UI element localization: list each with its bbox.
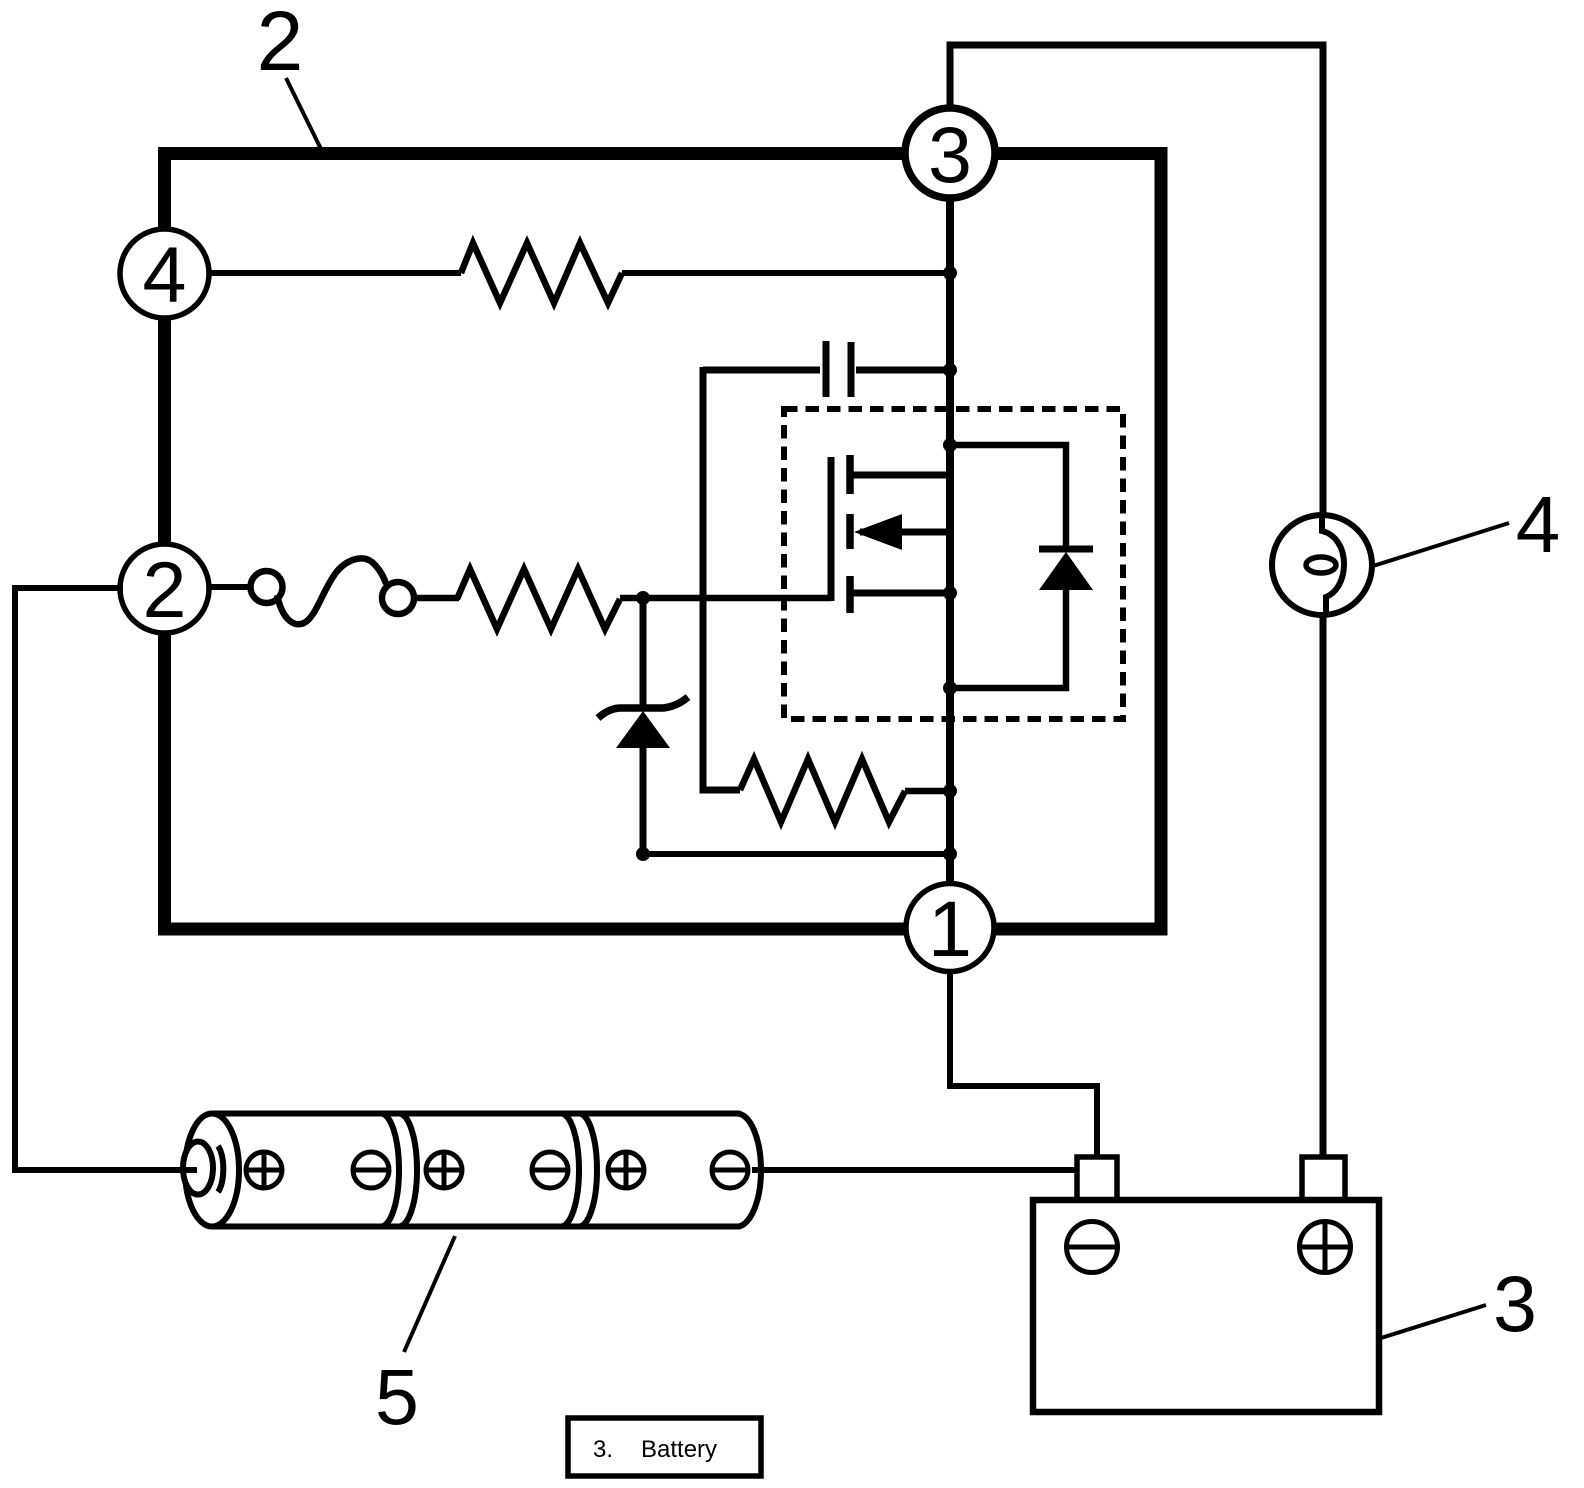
wire node2 to fuse xyxy=(208,584,252,590)
fuse F1 wavy element xyxy=(277,558,386,624)
lamp 4 xyxy=(1272,515,1372,615)
right end cap xyxy=(737,1114,761,1227)
left terminal nub xyxy=(183,1142,213,1195)
body diode D1 xyxy=(950,445,1093,688)
wire node2 left loop to battery pack xyxy=(15,588,196,1170)
junction dot gate/zener node xyxy=(636,591,650,605)
body arrow xyxy=(854,514,902,550)
svg-text:2: 2 xyxy=(257,0,304,88)
controller box 2 (thick rectangle) xyxy=(165,154,1162,930)
resistor R3 xyxy=(740,759,905,822)
battery pack 5 (three cells) xyxy=(182,1114,761,1227)
fuse F1 contact circle left xyxy=(251,571,283,603)
junction dot drain/diode node xyxy=(943,438,957,452)
junction dot zener bottom xyxy=(636,847,650,861)
wire zener bottom to main net xyxy=(643,851,950,857)
node 2 xyxy=(120,544,209,634)
junction dot diode anode/main xyxy=(943,681,957,695)
nub side arc xyxy=(218,1146,223,1192)
fuse F1 contact circle right xyxy=(382,582,414,614)
plus symbol cell3 xyxy=(608,1152,644,1188)
plus symbol cell1 xyxy=(246,1152,282,1188)
svg-text:4: 4 xyxy=(1516,480,1561,569)
lamp leader line xyxy=(1373,523,1509,566)
junction dot zener return/main xyxy=(943,847,957,861)
wire R2 to gate xyxy=(620,595,831,602)
body channel bar xyxy=(846,514,854,549)
resistor R2 xyxy=(457,569,620,629)
junction dot node R1/main xyxy=(943,266,957,280)
zener diode Z1 xyxy=(598,598,688,855)
node 3 xyxy=(905,108,995,199)
minus symbol cell2 xyxy=(532,1152,568,1188)
svg-text:3: 3 xyxy=(928,110,972,199)
svg-text:4: 4 xyxy=(143,230,187,319)
wire top loop from node 3 to lamp xyxy=(950,45,1323,517)
legend box xyxy=(568,1418,761,1476)
wire R1 to main net xyxy=(622,270,950,276)
svg-text:Battery: Battery xyxy=(641,1436,717,1463)
svg-text:5: 5 xyxy=(375,1352,419,1441)
wire battery pack to battery left terminal xyxy=(752,1167,1077,1173)
svg-text:2: 2 xyxy=(143,545,187,634)
plus symbol cell2 xyxy=(426,1152,462,1188)
label 3 leader line xyxy=(1381,1305,1486,1338)
wire node1 to battery left terminal xyxy=(950,971,1097,1158)
joint cell2/cell3 xyxy=(561,1114,579,1227)
label 5 leader line xyxy=(404,1236,455,1352)
label 2 leader line xyxy=(286,78,321,149)
source channel bar xyxy=(846,576,854,613)
feedback rail wire (capacitor / resistor R3 left) xyxy=(703,367,740,790)
minus symbol cell3 xyxy=(712,1152,748,1188)
wire lamp to battery positive terminal xyxy=(1320,614,1327,1158)
node 4 xyxy=(120,229,209,319)
wire stub into nub xyxy=(182,1167,197,1173)
drain channel bar xyxy=(846,455,854,494)
svg-text:3: 3 xyxy=(1493,1259,1537,1348)
junction dot source/main xyxy=(943,586,957,600)
node 1 xyxy=(906,884,994,974)
junction dot R3/main xyxy=(943,784,957,798)
battery 3 (car battery) xyxy=(1033,1157,1379,1412)
joint cell1/cell2 xyxy=(381,1114,399,1227)
main vertical net wire xyxy=(946,197,954,884)
cell bodies top line xyxy=(212,1111,740,1117)
minus symbol cell1 xyxy=(353,1152,389,1188)
wire node4 to resistor R1 xyxy=(208,270,461,276)
wire fuse to resistor R2 xyxy=(414,595,459,602)
minus terminal symbol xyxy=(1067,1222,1118,1273)
left end cap ellipse xyxy=(185,1114,239,1227)
drain wire xyxy=(850,472,950,479)
plus terminal symbol xyxy=(1300,1222,1351,1273)
gate line xyxy=(828,457,835,601)
svg-text:1: 1 xyxy=(928,884,972,973)
capacitor C1 xyxy=(703,341,950,397)
wire R3 to main net xyxy=(905,788,950,795)
body wire xyxy=(860,529,950,536)
cell bodies bottom line xyxy=(212,1224,740,1230)
junction dot capacitor/main xyxy=(943,363,957,377)
resistor R1 xyxy=(461,243,622,303)
source wire xyxy=(850,590,950,597)
svg-text:3.: 3. xyxy=(593,1436,613,1463)
transistor Q1 (MOSFET) xyxy=(831,455,950,613)
dashed package box U1 xyxy=(784,409,1123,719)
